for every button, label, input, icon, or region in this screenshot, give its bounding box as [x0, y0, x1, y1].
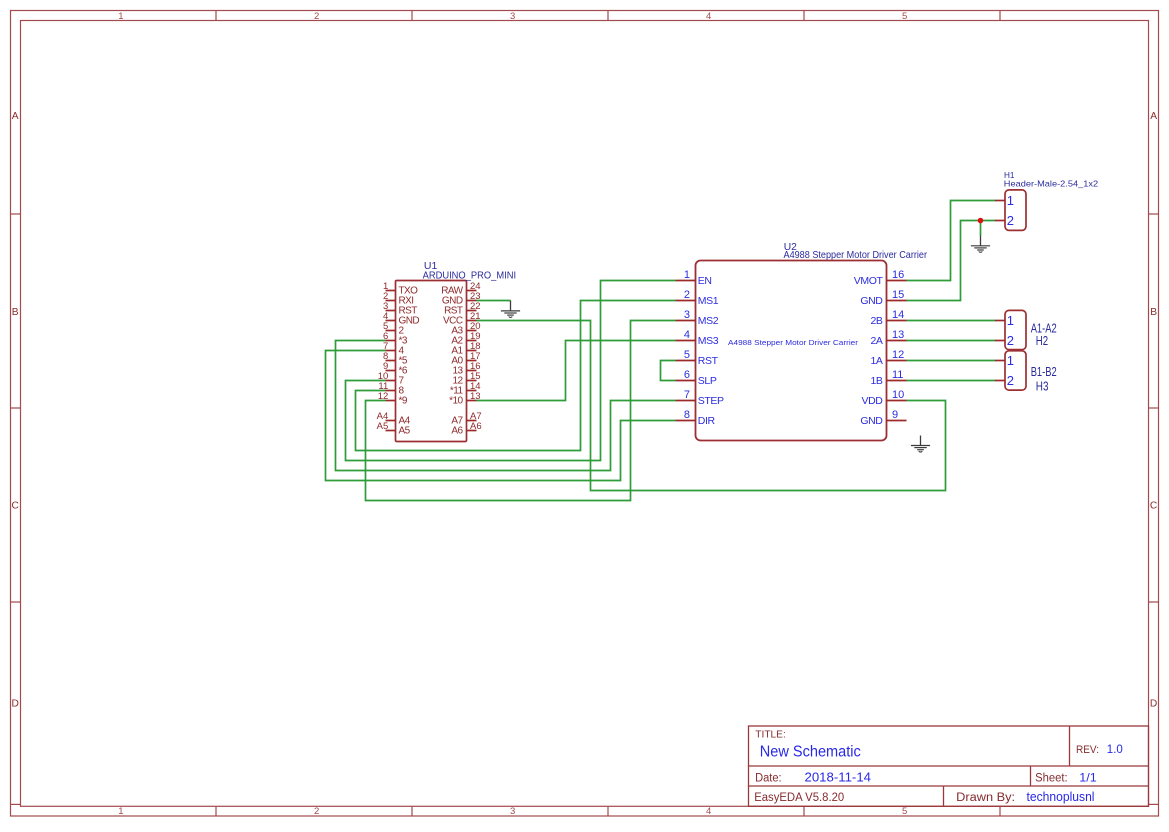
svg-text:STEP: STEP: [698, 395, 724, 407]
svg-text:H2: H2: [1036, 333, 1048, 348]
svg-text:9: 9: [892, 409, 898, 421]
svg-text:C: C: [12, 501, 19, 512]
svg-text:New Schematic: New Schematic: [760, 743, 861, 760]
svg-text:2018-11-14: 2018-11-14: [805, 771, 872, 785]
svg-text:3: 3: [684, 309, 690, 321]
svg-text:RST: RST: [698, 355, 719, 367]
svg-text:B: B: [12, 307, 19, 318]
svg-text:2: 2: [684, 289, 690, 301]
svg-text:MS2: MS2: [698, 315, 719, 327]
svg-text:1: 1: [684, 269, 690, 281]
svg-text:16: 16: [892, 269, 904, 281]
svg-text:5: 5: [902, 11, 907, 22]
svg-text:15: 15: [892, 289, 904, 301]
svg-text:6: 6: [684, 369, 690, 381]
svg-text:ARDUINO_PRO_MINI: ARDUINO_PRO_MINI: [423, 269, 516, 281]
svg-text:2: 2: [1007, 373, 1014, 388]
svg-text:2: 2: [314, 11, 319, 22]
svg-text:3: 3: [510, 806, 515, 817]
svg-text:4: 4: [706, 806, 711, 817]
svg-text:1: 1: [118, 11, 123, 22]
svg-text:2: 2: [314, 806, 319, 817]
svg-text:12: 12: [892, 349, 904, 361]
svg-text:1A: 1A: [870, 355, 882, 367]
svg-text:H3: H3: [1036, 379, 1049, 394]
svg-text:D: D: [1150, 699, 1157, 710]
svg-text:Sheet:: Sheet:: [1035, 772, 1068, 784]
svg-text:GND: GND: [860, 415, 883, 427]
svg-text:Date:: Date:: [755, 772, 782, 784]
svg-text:TITLE:: TITLE:: [755, 730, 786, 741]
svg-text:7: 7: [684, 389, 690, 401]
svg-text:B1-B2: B1-B2: [1031, 364, 1057, 379]
svg-text:4: 4: [684, 329, 690, 341]
svg-text:13: 13: [470, 391, 481, 402]
svg-text:2A: 2A: [870, 335, 882, 347]
svg-text:A5: A5: [399, 426, 411, 437]
svg-text:A4988 Stepper Motor Driver Car: A4988 Stepper Motor Driver Carrier: [728, 338, 859, 347]
svg-text:8: 8: [684, 409, 690, 421]
svg-text:5: 5: [902, 806, 907, 817]
svg-text:10: 10: [892, 389, 904, 401]
svg-text:B: B: [1150, 307, 1157, 318]
svg-text:Header-Male-2.54_1x2: Header-Male-2.54_1x2: [1004, 179, 1099, 188]
svg-text:1: 1: [1007, 313, 1014, 328]
svg-text:11: 11: [892, 369, 903, 381]
svg-text:D: D: [12, 699, 19, 710]
svg-text:VMOT: VMOT: [854, 275, 884, 287]
svg-text:C: C: [1150, 501, 1157, 512]
svg-text:REV:: REV:: [1076, 744, 1099, 756]
svg-text:MS1: MS1: [698, 295, 719, 307]
svg-text:12: 12: [378, 391, 389, 402]
svg-text:A: A: [1150, 111, 1157, 122]
svg-text:1: 1: [1007, 353, 1014, 368]
svg-text:A6: A6: [451, 426, 463, 437]
svg-text:1: 1: [1007, 193, 1014, 208]
svg-text:5: 5: [684, 349, 690, 361]
svg-text:*10: *10: [449, 396, 463, 407]
svg-text:1: 1: [118, 806, 123, 817]
svg-text:VDD: VDD: [862, 395, 884, 407]
svg-text:A5: A5: [377, 421, 389, 432]
svg-text:3: 3: [510, 11, 515, 22]
svg-text:EN: EN: [698, 275, 712, 287]
svg-text:EasyEDA V5.8.20: EasyEDA V5.8.20: [754, 792, 844, 804]
svg-text:1B: 1B: [870, 375, 882, 387]
svg-text:A: A: [12, 111, 19, 122]
svg-text:4: 4: [706, 11, 711, 22]
svg-text:A6: A6: [470, 421, 482, 432]
svg-text:technoplusnl: technoplusnl: [1027, 789, 1095, 804]
svg-text:Drawn By:: Drawn By:: [956, 792, 1015, 804]
svg-text:2: 2: [1007, 333, 1014, 348]
svg-text:14: 14: [892, 309, 904, 321]
svg-text:2: 2: [1007, 213, 1014, 228]
svg-text:A4988 Stepper Motor Driver Car: A4988 Stepper Motor Driver Carrier: [784, 250, 928, 261]
svg-text:MS3: MS3: [698, 335, 719, 347]
svg-text:GND: GND: [860, 295, 883, 307]
svg-text:2B: 2B: [870, 315, 882, 327]
svg-text:DIR: DIR: [698, 415, 716, 427]
svg-text:1.0: 1.0: [1107, 744, 1123, 756]
svg-text:SLP: SLP: [698, 375, 717, 387]
svg-text:13: 13: [892, 329, 904, 341]
svg-text:*9: *9: [399, 396, 408, 407]
svg-text:1/1: 1/1: [1079, 770, 1097, 784]
